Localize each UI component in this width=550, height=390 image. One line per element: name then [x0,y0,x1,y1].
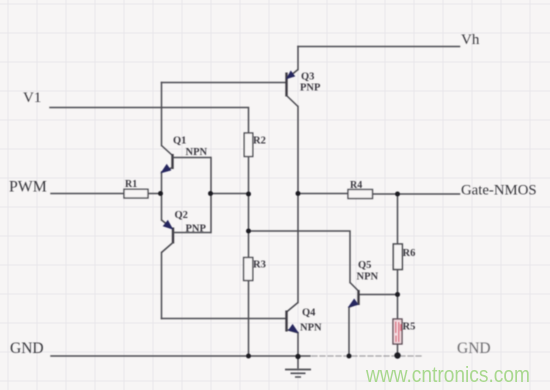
svg-text:R6: R6 [403,248,416,259]
svg-text:R3: R3 [253,260,266,271]
node R3-GND [246,354,251,359]
wire Q5 base lead [359,294,398,296]
wire R2R3 node to Q5 collector [249,231,351,283]
wire Q2 collector to Q4 base [162,318,287,320]
wire GND dashed right [312,355,424,357]
svg-text:GND: GND [10,340,44,357]
svg-text:NPN: NPN [357,272,379,283]
svg-text:www.cntronics.com: www.cntronics.com [365,362,530,387]
svg-text:Gate-NMOS: Gate-NMOS [461,183,537,199]
svg-text:R2: R2 [253,136,266,147]
wire R3 bottom to GND [248,281,250,357]
node ground-GND [295,354,300,359]
node R2R3 at gate row [246,192,251,197]
svg-text:NPN: NPN [186,147,208,158]
wire R6 to Q5 base node [397,270,399,295]
wire R2-R3 column [248,157,250,258]
svg-text:PNP: PNP [300,83,321,94]
svg-text:NPN: NPN [300,323,322,334]
wire Q1 collector to Q3 base [162,82,287,84]
transistor Q4 [287,303,299,333]
resistor R2 [244,133,253,157]
resistor R1 [124,189,148,198]
resistor R6 [393,244,402,270]
node Q5 base [395,292,400,297]
transistor Q1 [161,146,211,173]
svg-text:Q2: Q2 [175,210,188,221]
wire V1 line [50,108,249,134]
svg-text:PNP: PNP [186,224,207,235]
wire gate node down to Q4 collector [297,194,299,303]
transistor Q3 [287,70,299,107]
svg-text:R4: R4 [350,180,362,191]
node bases [208,191,213,196]
wire PWM to R1 [51,193,124,195]
svg-text:Vh: Vh [461,32,480,48]
resistor R5 (red) [393,319,402,344]
node R5-GND [394,352,400,358]
wire Q3 collector to gate node [297,107,299,194]
transistor Q2 [162,220,212,253]
svg-text:Q1: Q1 [173,136,186,147]
svg-text:GND: GND [457,340,491,357]
svg-text:Q3: Q3 [301,72,314,83]
wire Q3 emitter drop [297,47,299,70]
wire Q5 emitter down [348,307,350,356]
wire gate node to R4 [298,193,348,195]
node Q5E-GND [347,354,352,359]
node R2R3-Q5 [246,229,251,234]
resistor R4 [348,190,373,199]
wire bases column [210,158,212,233]
svg-text:Q5: Q5 [358,260,371,271]
wire GND line [51,355,310,357]
wire R5 to GND [397,344,399,356]
wire Q1 emitter / Q2 emitter column [161,172,163,220]
node R4-R6 [395,192,400,197]
wire R1 to node [148,193,161,195]
wire Q4 emitter down [297,333,299,357]
wire Q2 collector down [161,253,163,319]
svg-text:R5: R5 [403,322,416,333]
wire Vh [298,46,460,48]
svg-text:V1: V1 [23,90,41,106]
ground [285,357,311,378]
transistor Q5 [349,283,359,308]
node PWM-emitters [158,191,163,196]
svg-text:PWM: PWM [9,179,47,196]
svg-text:R1: R1 [125,179,137,190]
wire Q5 base node to R5 [397,295,399,320]
wire bases node to R2R3 node [211,193,249,195]
svg-text:Q4: Q4 [302,308,316,319]
wire R4 to Gate-NMOS [373,193,460,195]
resistor R3 [244,258,253,281]
node Q3C-R4 [296,191,301,196]
wire R4 node down to R6 [397,194,399,244]
wire Q1 collector up [161,83,163,146]
